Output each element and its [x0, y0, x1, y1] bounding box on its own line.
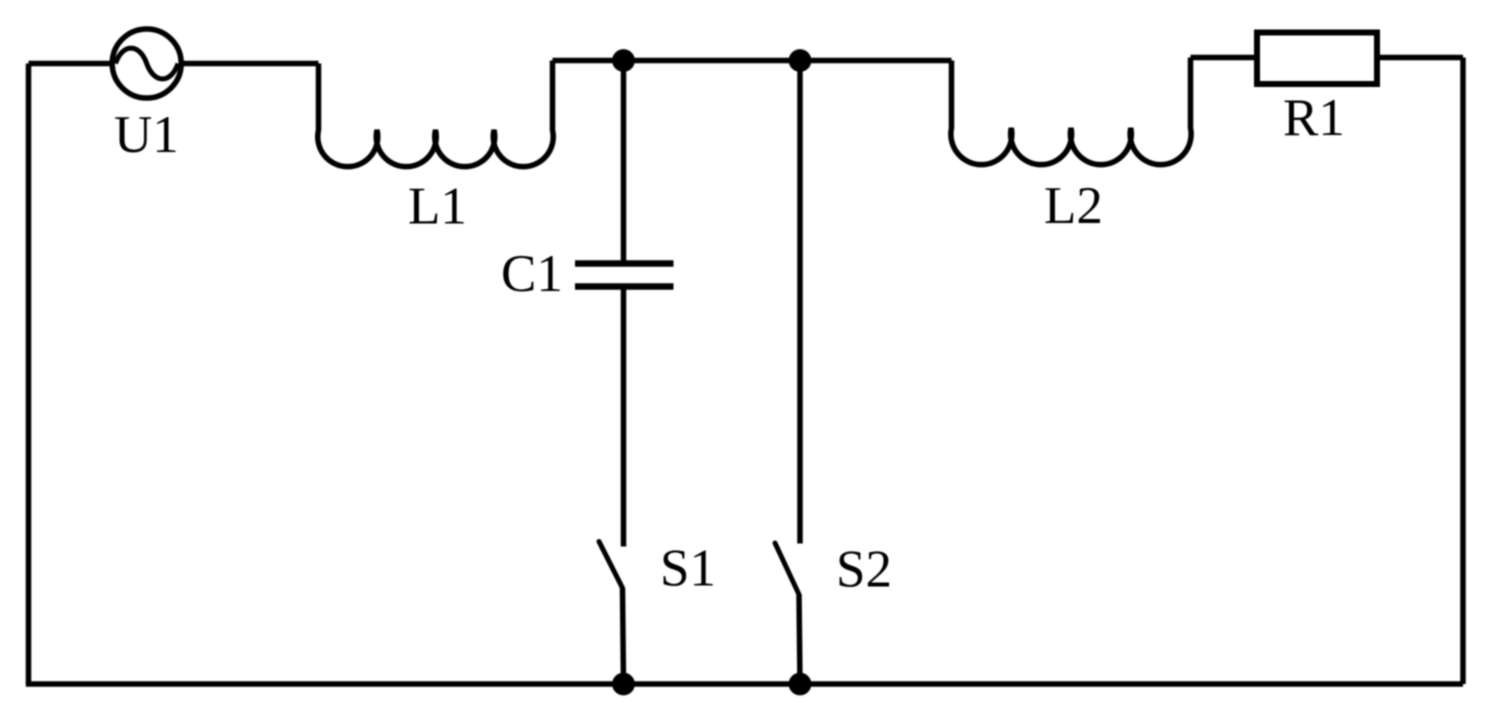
node A junction dot [612, 49, 635, 72]
node C junction dot [612, 673, 635, 696]
resistor R1 body [1257, 33, 1377, 85]
switch S1 blade [599, 542, 623, 589]
capacitor C1 bottom plate [575, 283, 674, 290]
wire node A down to C1 [621, 61, 627, 264]
wire bottom horizontal [26, 681, 1463, 687]
wire node A to node B [624, 58, 801, 64]
wire right vertical [1460, 58, 1466, 685]
wire R1 to top-right corner [1377, 55, 1463, 61]
node B junction dot [789, 49, 812, 72]
switch S2 blade [775, 543, 799, 595]
ac source U1 circle [112, 29, 181, 98]
wire S2 to bottom node D [799, 595, 800, 685]
svg-text:U1: U1 [114, 106, 179, 164]
wire U1 to L1 [184, 61, 319, 67]
inductor L1 [318, 61, 553, 167]
ac source U1 sine wave [116, 48, 179, 79]
wire top-left to source U1 [29, 61, 111, 67]
node D junction dot [789, 673, 812, 696]
wire L2 to R1 [1191, 55, 1258, 61]
svg-text:S1: S1 [660, 540, 716, 598]
svg-text:S2: S2 [836, 541, 892, 599]
wire node B to L2 [800, 58, 952, 64]
wire C1 to switch S1 [621, 287, 627, 547]
wire node B down to switch S2 [797, 61, 803, 544]
svg-text:R1: R1 [1283, 89, 1345, 147]
wire left vertical [26, 64, 32, 685]
inductor L2 [951, 58, 1191, 165]
wire L1 to node A [553, 58, 624, 64]
wire S1 to bottom node C [623, 588, 624, 684]
capacitor C1 top plate [575, 260, 674, 267]
svg-text:C1: C1 [501, 245, 563, 303]
svg-text:L2: L2 [1044, 177, 1103, 235]
svg-text:L1: L1 [408, 178, 467, 236]
